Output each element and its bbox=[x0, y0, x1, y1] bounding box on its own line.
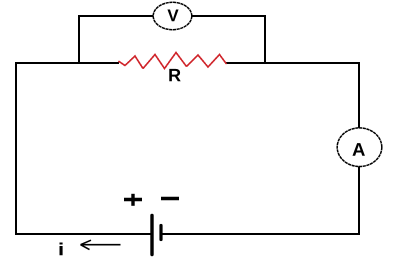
wire: left vertical of main loop bbox=[15, 62, 17, 235]
current arrow bbox=[81, 244, 121, 246]
voltmeter label V bbox=[167, 10, 178, 22]
wire: right vertical below ammeter bbox=[358, 166, 360, 235]
battery positive plate (long bar) bbox=[150, 216, 153, 255]
resistor label R bbox=[169, 69, 180, 81]
wire: voltmeter branch top right segment bbox=[192, 15, 267, 17]
wire: right vertical above ammeter bbox=[358, 62, 360, 129]
wire: voltmeter branch left stub bbox=[78, 15, 80, 64]
wire: top horizontal left segment (left corner to resistor) bbox=[15, 62, 119, 64]
wire: voltmeter branch right stub bbox=[264, 15, 266, 64]
current label i bbox=[60, 243, 63, 256]
voltmeter V ellipse bbox=[153, 2, 192, 29]
ammeter label A bbox=[352, 143, 364, 156]
wire: bottom horizontal left segment (corner to battery) bbox=[15, 233, 151, 235]
wire: top horizontal right segment (resistor to right corner) bbox=[226, 62, 360, 64]
wire: voltmeter branch top left segment bbox=[78, 15, 154, 17]
battery - label bbox=[161, 197, 179, 200]
wire: bottom horizontal right segment (battery to right corner) bbox=[162, 233, 360, 235]
resistor R zigzag bbox=[119, 53, 226, 69]
ammeter A circle bbox=[337, 128, 382, 167]
battery + label bbox=[124, 198, 142, 201]
battery negative plate (short bar) bbox=[159, 226, 162, 240]
